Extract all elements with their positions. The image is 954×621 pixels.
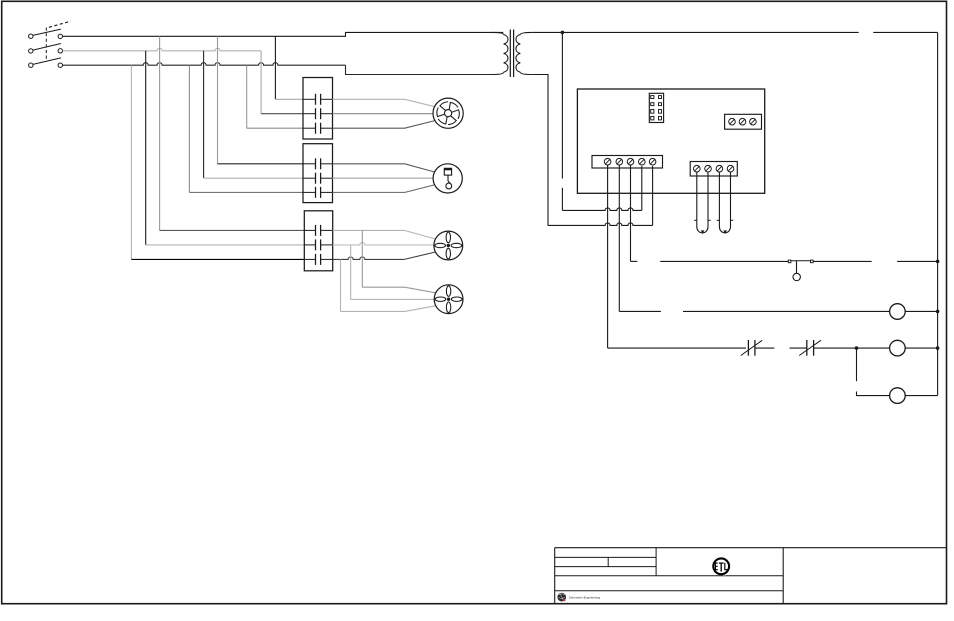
condenser fan F2 <box>434 285 463 314</box>
junction dot bus rung3 <box>936 346 940 350</box>
title block grid <box>555 548 947 604</box>
junction dot secondary hot <box>561 31 565 35</box>
condenser fan F1 <box>434 231 463 260</box>
contactor C2 (3-pole contact block) <box>303 144 333 203</box>
NC contact HP2 <box>799 340 821 356</box>
temperature sensor probe S2 <box>717 172 734 234</box>
wire hot drop with break <box>561 32 563 210</box>
terminal block TB2 (3 screws) <box>725 114 762 129</box>
connector header J1 (2x4 pins) <box>649 93 663 122</box>
wire C2 bottom output to compressor M1 <box>333 185 435 193</box>
wire secondary common from transformer <box>532 75 548 226</box>
ETL listed logo <box>713 558 729 576</box>
disconnect switch linkage (dashed) <box>45 28 47 62</box>
wire tap C3 middle to fan F2 <box>351 245 435 300</box>
wire terminal 2 drop <box>619 165 661 311</box>
float switch FS <box>788 260 813 281</box>
wire C2 middle output to compressor M1 <box>333 177 434 179</box>
wire rung 1 segment c <box>897 260 937 262</box>
indicator lamp L2 <box>890 340 906 356</box>
indicator lamp L1 <box>890 304 906 320</box>
wire drop x=246.7 to contactor C1 bottom contact <box>247 65 303 128</box>
wire lamp L1 to bus <box>905 310 937 312</box>
disconnect switch handle (dashed) <box>49 21 71 27</box>
wire C3 bottom output to fan F1 <box>333 252 436 259</box>
wire drop x=275.4 to contactor C1 top contact <box>275 36 303 99</box>
wire tap C3 bottom to fan F2 <box>341 259 436 311</box>
terminal block TB1 (5 screws) <box>592 156 663 169</box>
indicator lamp L3 <box>890 388 906 404</box>
wire C3 middle output to fan F1 <box>333 242 434 245</box>
wire drop x=159.6 to contactor C3 top contact <box>160 36 305 230</box>
wire C3 top output to fan F1 <box>333 230 436 239</box>
wire terminal 1 drop <box>607 165 609 348</box>
wire secondary hot (top) <box>532 31 937 33</box>
transformer T1 <box>492 30 533 78</box>
compressor M1 <box>433 164 462 193</box>
wire tap C3 top to fan F2 <box>362 230 435 292</box>
blower motor B1 (condenser blower) <box>433 98 463 128</box>
wire drop x=217.5 to contactor C2 top contact <box>218 36 304 164</box>
wire terminal 3 drop <box>631 165 638 261</box>
wire rung 3 segment a <box>608 347 746 349</box>
disconnect switch S1 pole 3 <box>29 58 63 67</box>
junction dot bus rung1 <box>936 260 940 264</box>
wire rung 2 <box>683 310 890 312</box>
disconnect switch S1 pole 1 <box>29 29 63 39</box>
terminal block TB3 (4 screws, sensors) <box>690 162 737 177</box>
wire C1 middle output to blower B1 <box>333 113 434 115</box>
junction dot bus rung2 <box>936 310 940 314</box>
wire rung 3 segment d <box>814 347 890 349</box>
wire hot to terminal 4 <box>562 166 641 210</box>
right bus vertical <box>937 32 939 395</box>
svg-text:Schneider Engineering: Schneider Engineering <box>569 596 601 600</box>
wire drop x=203.6 to contactor C2 middle contact <box>204 51 303 178</box>
company logo <box>557 593 600 602</box>
NC contact HP1 <box>741 340 762 356</box>
wire rung 1 segment b <box>813 260 872 262</box>
wire drop x=145.7 to contactor C3 middle contact <box>146 51 305 245</box>
control board outline <box>577 89 764 193</box>
wire drop x=189.4 to contactor C2 bottom contact <box>189 65 303 192</box>
wire rung 1 segment a <box>660 260 788 262</box>
disconnect switch S1 pole 2 <box>29 44 63 54</box>
wire L2 (middle phase) <box>63 48 262 51</box>
wire lamp L3 to bus <box>905 395 937 397</box>
temperature sensor probe S1 <box>694 172 711 234</box>
wire lamp L2 to bus <box>905 347 937 349</box>
wire rung 3 segment c <box>790 347 807 349</box>
wire C1 top output to blower B1 <box>333 99 435 106</box>
wire common to terminal 5 <box>548 166 653 225</box>
junction dot rung 3 <box>855 346 859 350</box>
wire L3 (bottom phase) <box>63 63 493 75</box>
wire L1 (top phase) <box>63 32 504 36</box>
wire C1 bottom output to blower B1 <box>333 121 435 129</box>
wire C2 top output to compressor M1 <box>333 164 435 172</box>
wire branch to lamp L3 <box>857 348 890 396</box>
wire drop x=261.1 to contactor C1 middle contact <box>261 51 303 114</box>
contactor C1 (3-pole contact block) <box>303 78 333 140</box>
wire drop x=131.4 to contactor C3 bottom contact <box>131 65 304 259</box>
wire rung 3 segment b <box>755 347 774 349</box>
contactor C3 (3-pole contact block) <box>304 211 332 271</box>
